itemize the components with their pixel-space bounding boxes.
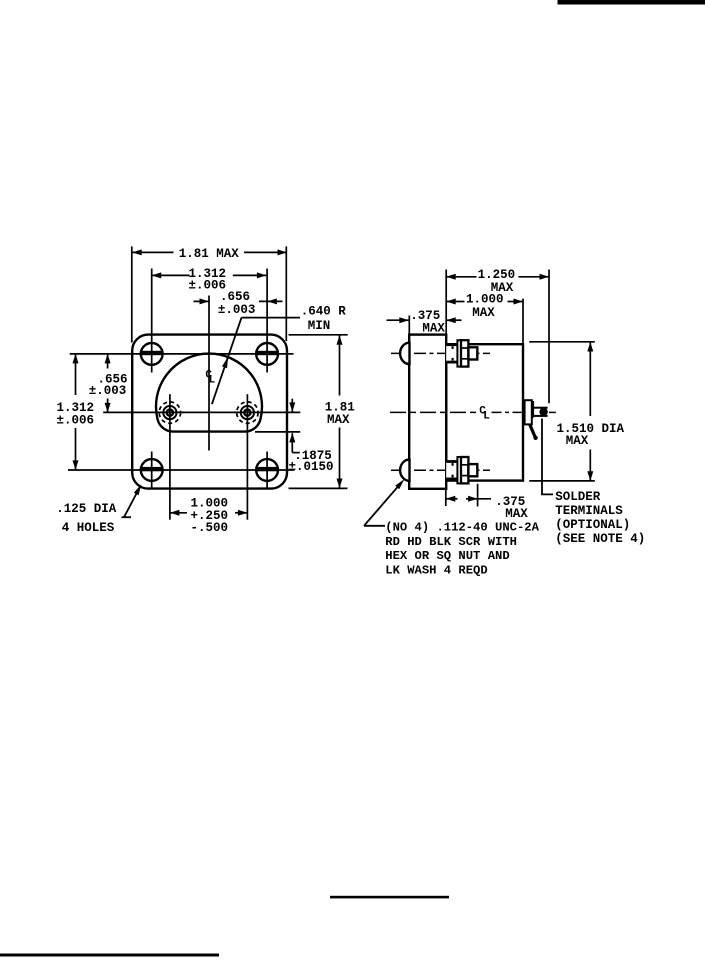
svg-text:MAX: MAX [327,413,350,427]
svg-text:±.003: ±.003 [89,384,127,398]
svg-text:(OPTIONAL): (OPTIONAL) [555,518,630,532]
svg-text:1.250: 1.250 [478,268,516,282]
svg-text:.656: .656 [220,290,250,304]
svg-text:LK WASH 4 REQD: LK WASH 4 REQD [385,563,487,577]
svg-text:.125 DIA: .125 DIA [56,502,117,516]
svg-text:TERMINALS: TERMINALS [555,504,623,518]
svg-text:SOLDER: SOLDER [555,490,601,504]
svg-text:(SEE NOTE 4): (SEE NOTE 4) [555,532,645,546]
svg-text:MAX: MAX [505,507,528,521]
svg-text:1.81 MAX: 1.81 MAX [179,247,240,261]
svg-text:HEX OR SQ NUT AND: HEX OR SQ NUT AND [385,549,509,563]
svg-text:±.0150: ±.0150 [289,460,334,474]
svg-text:MIN: MIN [308,319,331,333]
svg-text:L: L [209,374,216,386]
svg-text:1.000: 1.000 [466,293,504,307]
svg-text:MAX: MAX [422,321,445,335]
svg-text:-.500: -.500 [191,521,229,535]
svg-text:(NO 4) .112-40 UNC-2A: (NO 4) .112-40 UNC-2A [385,521,539,535]
svg-text:.640 R: .640 R [301,305,347,319]
svg-text:MAX: MAX [472,306,495,320]
svg-text:±.003: ±.003 [218,303,256,317]
svg-text:MAX: MAX [566,434,589,448]
svg-text:L: L [483,410,490,422]
svg-text:±.006: ±.006 [57,413,95,427]
svg-text:4 HOLES: 4 HOLES [62,521,115,535]
svg-text:RD HD BLK SCR WITH: RD HD BLK SCR WITH [385,535,517,549]
